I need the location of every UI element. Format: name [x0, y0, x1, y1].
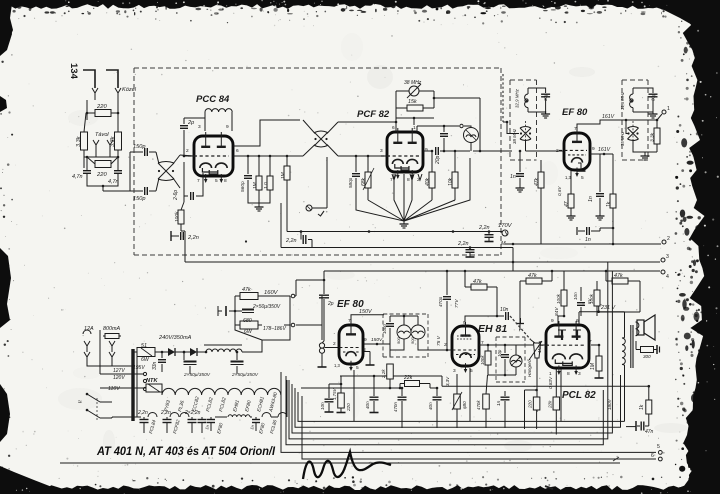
svg-text:47n: 47n	[645, 429, 654, 435]
capacitor 1n EF80	[588, 154, 605, 220]
resistor 2,2k screen	[381, 364, 393, 389]
capacitor 1n IF1	[510, 150, 525, 192]
sound IF coil B	[410, 323, 425, 344]
speaker LS	[636, 315, 656, 340]
wire EH81 grid	[432, 349, 452, 351]
sound IF coil A	[396, 323, 411, 344]
svg-text:1: 1	[667, 106, 670, 112]
svg-text:40n: 40n	[428, 402, 433, 410]
capacitor 2p PCC84	[180, 118, 205, 156]
bus wrap corner 2	[286, 376, 603, 445]
svg-text:800mA: 800mA	[103, 326, 120, 332]
resistor 1M osc	[280, 156, 290, 190]
pin labels PCC84	[186, 124, 239, 184]
svg-text:6: 6	[236, 148, 239, 154]
wire PSU right drop	[321, 325, 323, 340]
IF coil 32,9MHz	[515, 88, 529, 112]
svg-text:470p: 470p	[438, 296, 443, 307]
label 180V	[607, 398, 612, 410]
tube PCL82	[540, 321, 589, 375]
svg-text:9: 9	[364, 337, 367, 343]
resistor 3,3k IF2	[633, 120, 660, 160]
resistor 100k EH81	[556, 271, 567, 316]
svg-text:470k: 470k	[476, 400, 481, 410]
tube PCC84	[188, 132, 233, 183]
svg-text:2,2n: 2,2n	[187, 235, 199, 241]
wires 38MHz trap	[396, 91, 480, 151]
svg-text:580p: 580p	[348, 177, 353, 188]
svg-text:3: 3	[578, 371, 581, 377]
svg-text:300: 300	[643, 354, 651, 359]
svg-text:1n: 1n	[496, 400, 502, 406]
svg-text:Hangerő: Hangerő	[527, 359, 532, 377]
tuner rail 170V	[287, 190, 502, 233]
svg-text:3: 3	[666, 254, 669, 260]
resistor 100k PCC84	[174, 202, 184, 231]
capacitor 2,2n PCC84	[171, 231, 199, 241]
resistor 15k above PCF82	[396, 99, 434, 111]
tuner dashed enclosure	[134, 67, 501, 69]
bus line 4	[324, 270, 669, 280]
svg-text:2×50μ/350V: 2×50μ/350V	[252, 304, 281, 310]
svg-text:10n: 10n	[320, 402, 325, 410]
IF transformer box 2 dashed	[622, 79, 648, 81]
svg-text:120V: 120V	[113, 375, 125, 381]
svg-text:2,2k: 2,2k	[381, 369, 386, 379]
svg-text:47k: 47k	[528, 273, 537, 279]
svg-text:9: 9	[226, 124, 229, 130]
svg-text:12A: 12A	[84, 326, 94, 332]
capacitor 40n EH81	[428, 387, 442, 428]
wire PCL82 drop	[354, 368, 561, 421]
svg-text:9: 9	[425, 147, 428, 153]
svg-text:51: 51	[141, 343, 147, 349]
trimmer 2-6p	[173, 162, 203, 202]
label 84V	[554, 298, 592, 316]
resistor 220 antenna bottom	[84, 145, 118, 178]
capacitor 33p IF2	[633, 88, 658, 118]
tube EF80 sound	[334, 321, 363, 371]
capacitor 2,2n rail1-gnd	[478, 225, 494, 242]
svg-text:22k: 22k	[403, 375, 413, 381]
svg-text:3,3k: 3,3k	[110, 135, 116, 147]
svg-text:161V: 161V	[598, 147, 611, 153]
terminal line 5	[281, 372, 662, 454]
svg-text:47k: 47k	[473, 279, 482, 285]
resistor 47k bus c	[600, 270, 640, 312]
svg-text:47k: 47k	[242, 287, 251, 293]
svg-text:Távol: Távol	[95, 132, 109, 138]
capacitor 560p	[240, 156, 252, 196]
svg-text:1k: 1k	[606, 201, 612, 207]
label PCC 84	[196, 94, 230, 105]
svg-text:1: 1	[549, 371, 552, 377]
svg-text:150p: 150p	[133, 144, 145, 150]
svg-text:1n: 1n	[585, 237, 591, 243]
resistor 40k PCF82	[425, 150, 435, 200]
label 240V/350mA	[158, 335, 192, 341]
svg-text:1,0: 1,0	[263, 182, 269, 189]
resistor 470k det	[476, 375, 489, 428]
svg-text:5: 5	[581, 175, 584, 181]
resistor 3,3k right	[110, 120, 122, 168]
label EH 81	[478, 323, 507, 335]
antenna terminal Kozel	[83, 70, 98, 100]
svg-text:150p: 150p	[133, 196, 145, 202]
resistor 220 antenna top	[86, 100, 120, 120]
svg-text:31,5 MHz: 31,5 MHz	[620, 91, 625, 110]
svg-text:15k: 15k	[408, 99, 417, 105]
svg-text:2-6p: 2-6p	[173, 190, 179, 201]
wire heater bottom	[111, 417, 113, 418]
capacitor 4,7n left	[72, 156, 91, 180]
label 150V sound	[359, 309, 373, 315]
svg-text:220: 220	[346, 403, 351, 412]
svg-text:68k: 68k	[361, 177, 367, 186]
svg-text:1M: 1M	[280, 172, 286, 179]
svg-text:195V: 195V	[133, 365, 145, 371]
svg-text:8: 8	[567, 371, 570, 377]
pin labels PCL82	[538, 318, 592, 377]
svg-text:1M: 1M	[252, 182, 258, 189]
capacitor 10p det	[497, 345, 509, 375]
svg-text:0,6V: 0,6V	[557, 186, 562, 196]
svg-text:10k: 10k	[448, 177, 454, 186]
svg-text:220: 220	[96, 104, 107, 110]
resistor 1k out	[639, 386, 652, 426]
svg-text:2: 2	[186, 148, 189, 154]
electrolytic 2x50u A	[183, 351, 211, 378]
detector dashed box	[496, 337, 525, 382]
svg-text:2: 2	[333, 341, 336, 347]
svg-text:PCL 82: PCL 82	[562, 390, 596, 401]
svg-text:2,2n: 2,2n	[457, 241, 469, 247]
trimmer 38MHz	[396, 80, 434, 98]
svg-text:PCC 84: PCC 84	[196, 94, 230, 105]
svg-text:47k: 47k	[614, 273, 623, 279]
svg-text:4,7n: 4,7n	[108, 179, 119, 185]
wire IF1 out	[526, 140, 565, 151]
svg-text:3,3k: 3,3k	[76, 135, 82, 147]
fuse 12A	[83, 326, 94, 352]
wire PCL82 plate	[558, 312, 579, 325]
resistor 300	[636, 341, 660, 359]
svg-text:10n: 10n	[500, 307, 509, 313]
label 75V	[436, 335, 442, 346]
balun coil X	[156, 152, 180, 191]
wire tuner to IF1	[473, 150, 512, 152]
label PCL 82	[562, 390, 596, 401]
audio takeoff line	[301, 387, 401, 390]
svg-text:22k: 22k	[548, 400, 553, 409]
resistor 1M vert	[252, 155, 262, 200]
antenna terminal 2	[106, 70, 121, 100]
svg-text:500: 500	[396, 337, 401, 344]
wire row y156	[248, 155, 288, 158]
resistor 68k	[361, 155, 374, 200]
capacitor 1n decouple	[577, 227, 614, 243]
capacitor 4,7n right	[108, 156, 122, 185]
PCF82 cathode converge	[356, 158, 470, 221]
NTK thermistor	[141, 378, 162, 392]
svg-text:5: 5	[215, 178, 218, 184]
capacitor 47n out	[636, 421, 654, 435]
svg-text:1k: 1k	[639, 404, 645, 410]
svg-text:75 V: 75 V	[436, 335, 442, 346]
svg-text:220: 220	[96, 172, 107, 178]
svg-text:150V: 150V	[359, 309, 373, 315]
capacitor 33p IF1	[528, 88, 550, 118]
svg-text:2,2n: 2,2n	[137, 410, 148, 416]
svg-text:110V: 110V	[108, 386, 120, 392]
wire EF80 out down	[612, 228, 615, 245]
arrows PCF82 pins	[392, 174, 422, 180]
transformer core	[133, 349, 137, 421]
wire bus4 corner	[323, 271, 325, 280]
heater row 2 names	[148, 419, 278, 435]
svg-text:AT 401 N, AT 403 és AT 504 Ori: AT 401 N, AT 403 és AT 504 Orion/I	[96, 446, 276, 458]
svg-text:20p: 20p	[435, 155, 441, 165]
resistor 22k sound	[400, 375, 430, 388]
capacitor 10n EF80k	[320, 383, 342, 412]
svg-text:33p: 33p	[543, 93, 548, 101]
resistor 1k EF80	[606, 154, 616, 228]
detector rail	[479, 344, 533, 347]
pin labels EH81	[444, 320, 484, 374]
wire left vert2	[102, 186, 104, 191]
svg-text:3: 3	[380, 148, 383, 154]
heater chain	[162, 372, 281, 395]
electrolytic 2x50u B	[231, 351, 259, 378]
diode D1	[162, 348, 184, 356]
svg-text:1,3: 1,3	[334, 363, 340, 368]
terminal 170V M	[498, 223, 513, 247]
svg-text:170V: 170V	[498, 223, 513, 229]
label PCF 82	[357, 109, 390, 120]
wire EF80 screen row	[590, 147, 613, 155]
tube EH81	[447, 322, 479, 373]
svg-text:100k: 100k	[480, 355, 485, 365]
svg-text:100p: 100p	[382, 324, 387, 334]
svg-text:0,83V: 0,83V	[548, 376, 553, 389]
terminal Tavol pair	[93, 132, 113, 152]
capacitor 470p EH81	[438, 270, 451, 352]
mains terminals	[84, 352, 133, 366]
svg-text:680: 680	[243, 318, 252, 324]
svg-text:PCF 82: PCF 82	[357, 109, 390, 120]
bus wrap corner 3	[289, 262, 608, 439]
svg-text:100k: 100k	[556, 293, 561, 304]
terminal 1 top right	[657, 106, 670, 120]
capacitor PCF82 pin1	[417, 124, 471, 151]
svg-text:1M: 1M	[590, 362, 596, 370]
resistor 1M PCL82	[590, 344, 604, 378]
svg-text:161V: 161V	[602, 114, 615, 120]
pin labels PCF82	[380, 125, 428, 183]
wire pot to PCL82	[540, 344, 548, 346]
svg-text:2,2n: 2,2n	[285, 238, 297, 244]
IF transformer box 1 dashed	[510, 79, 537, 81]
svg-text:33n: 33n	[152, 361, 158, 370]
svg-text:4: 4	[666, 274, 669, 280]
detector box bottom	[488, 374, 516, 377]
IF coil 31,5MHz	[620, 88, 633, 112]
dirt marks	[318, 211, 324, 216]
svg-text:2,2n: 2,2n	[160, 410, 171, 416]
capacitor 580p	[348, 155, 360, 190]
filter choke	[204, 345, 248, 352]
interstage coil X	[287, 120, 338, 156]
wire sound IF top	[390, 315, 418, 325]
label EF 80 video IF	[562, 107, 588, 118]
resistor 47 cathode	[557, 170, 576, 220]
capacitor 2p sound	[319, 280, 334, 341]
svg-text:6: 6	[651, 453, 654, 459]
svg-text:8: 8	[407, 177, 410, 183]
sound IF transformer box	[383, 314, 428, 357]
svg-text:2: 2	[444, 342, 447, 348]
wire EF80 plate	[577, 114, 626, 133]
svg-text:7: 7	[589, 339, 592, 345]
svg-text:38 MHz: 38 MHz	[404, 80, 422, 86]
tube EF80 top	[559, 129, 590, 177]
capacitor 2,2n bus-left drop	[184, 236, 186, 262]
svg-text:160V: 160V	[264, 290, 279, 296]
resistor 47k bus a	[464, 270, 497, 316]
output transformer	[622, 322, 639, 421]
svg-text:7: 7	[197, 178, 200, 184]
label EF 80 sound	[337, 299, 364, 310]
label 3,3V	[445, 376, 450, 386]
spare	[0, 0, 1, 1]
title AT 401 N	[96, 446, 276, 458]
svg-text:5: 5	[356, 365, 359, 371]
svg-text:33p: 33p	[651, 93, 656, 101]
svg-text:680: 680	[462, 401, 467, 409]
capacitor 10n bus	[573, 287, 585, 316]
svg-text:47k: 47k	[534, 177, 540, 186]
resistor 3,3k left	[76, 113, 88, 168]
ground PCF82	[400, 221, 409, 228]
sound IF cap 100p	[382, 316, 394, 340]
capacitor 2,2n rail-mid	[285, 230, 312, 247]
resistor 220 EF80snd	[337, 376, 352, 413]
tuner rail AGC	[281, 203, 514, 271]
wire PCC84 anode top	[233, 120, 300, 146]
wire antenna common	[87, 180, 118, 191]
resistor 100k det	[480, 345, 491, 375]
svg-text:2p: 2p	[327, 301, 334, 307]
svg-text:500: 500	[410, 337, 415, 344]
wire tuner bottom feeds	[185, 244, 262, 352]
audio line y386	[442, 376, 650, 388]
page number 134	[68, 63, 79, 80]
svg-text:6: 6	[392, 125, 395, 131]
diode D2	[183, 348, 206, 356]
resistor 10k PCF82	[448, 150, 458, 200]
wire grid to balun	[180, 155, 194, 158]
heater row 2 coil	[215, 380, 287, 431]
cathode row line	[340, 375, 442, 377]
svg-text:150V: 150V	[371, 337, 383, 343]
capacitor 2,2n rail2-gnd	[457, 241, 475, 257]
svg-text:32,9 MHz: 32,9 MHz	[515, 88, 520, 108]
heater row 2 caps	[112, 410, 215, 433]
resistor 680 EH81	[452, 374, 467, 428]
pin labels EF80snd	[333, 318, 367, 371]
resistor 47k IF1	[534, 160, 544, 244]
svg-text:240V/350mA: 240V/350mA	[158, 335, 192, 341]
svg-text:47: 47	[564, 201, 570, 207]
svg-text:6W: 6W	[141, 357, 150, 363]
capacitor 470n snd	[393, 387, 407, 428]
wire PSU frame	[235, 296, 290, 330]
svg-text:4,7n: 4,7n	[72, 174, 83, 180]
bus wrap corner 6	[298, 392, 625, 421]
svg-text:EH 81: EH 81	[478, 323, 507, 335]
svg-text:3: 3	[453, 368, 456, 374]
svg-text:1: 1	[413, 125, 416, 131]
bus wrap corner 4	[292, 271, 612, 433]
pot 1M Hangero	[527, 341, 543, 412]
pin labels EF80top	[556, 126, 595, 181]
terminal line 6	[302, 396, 662, 461]
svg-text:3,3V: 3,3V	[445, 376, 450, 386]
svg-text:1n: 1n	[510, 174, 516, 180]
bus line 3	[185, 254, 669, 262]
svg-text:40n: 40n	[365, 401, 370, 409]
oscillator coil	[464, 128, 479, 152]
svg-text:560p: 560p	[240, 181, 246, 192]
svg-text:10p: 10p	[497, 349, 502, 357]
svg-text:178–186V: 178–186V	[263, 326, 286, 332]
resistor 47k PSU	[235, 279, 325, 300]
bottom long line	[60, 462, 620, 464]
svg-text:3,3k: 3,3k	[650, 132, 656, 142]
wire 150p join	[103, 152, 130, 191]
svg-text:NTK: NTK	[146, 378, 158, 384]
svg-text:84V: 84V	[554, 307, 560, 316]
svg-text:134: 134	[68, 63, 79, 80]
label 77V	[454, 299, 460, 308]
tube PCF82	[381, 128, 423, 179]
capacitor 150p upper	[130, 144, 156, 156]
svg-text:8: 8	[224, 178, 227, 184]
EF80snd screen wires	[356, 337, 390, 365]
resistor 220 PCL82	[525, 389, 540, 429]
mains switch	[78, 393, 112, 422]
resistor 47k bus b	[519, 270, 553, 330]
resistor S1 surge	[133, 343, 162, 371]
capacitor 40n snd	[365, 375, 379, 413]
231V rail	[579, 305, 625, 338]
wire sound IF bottom	[390, 339, 432, 350]
heater tube names	[163, 391, 279, 413]
svg-text:2×2,2n: 2×2,2n	[184, 410, 201, 416]
svg-text:2×50μ/350V: 2×50μ/350V	[183, 372, 211, 378]
capacitor 33n	[152, 351, 166, 372]
svg-text:EF 80: EF 80	[562, 107, 588, 118]
wire PCC84 anode right	[233, 155, 249, 158]
scribble signature	[303, 452, 391, 479]
label 0,83V	[548, 376, 553, 389]
wire to PCF82 grid	[338, 121, 397, 156]
svg-text:38 MHz: 38 MHz	[512, 128, 517, 144]
label 1,75V	[332, 387, 337, 400]
svg-text:220: 220	[528, 400, 533, 409]
svg-text:1,75V: 1,75V	[332, 387, 337, 400]
input coil EF80snd	[318, 341, 340, 367]
